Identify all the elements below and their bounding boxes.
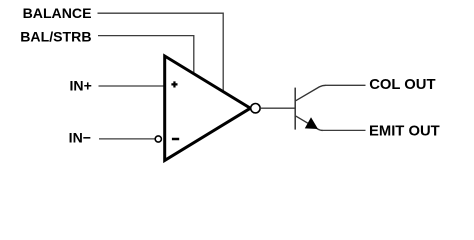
transistor Q1 base bar <box>294 88 296 130</box>
wire emitter to EMIT OUT <box>323 129 366 131</box>
op-amp - pin label <box>172 138 179 141</box>
svg-text:EMIT OUT: EMIT OUT <box>369 124 440 140</box>
op-amp U1 triangle <box>165 56 251 160</box>
wire collector to COL OUT <box>326 84 366 86</box>
svg-text:COL OUT: COL OUT <box>369 77 435 93</box>
wire BALANCE to op-amp top edge <box>98 13 224 91</box>
transistor Q1 emitter arrow <box>305 117 318 129</box>
wire BAL/STRB to op-amp top edge <box>98 36 194 74</box>
transistor Q1 emitter lead <box>296 116 323 130</box>
op-amp inverting input bubble <box>155 136 161 142</box>
svg-text:IN+: IN+ <box>69 77 91 93</box>
wire IN+ to op-amp <box>99 85 165 87</box>
wire IN- to inverting input bubble <box>99 138 155 140</box>
op-amp output inversion bubble <box>251 104 260 113</box>
wire op-amp output to transistor base <box>260 107 295 109</box>
op-amp + pin label <box>171 81 177 87</box>
svg-text:BALANCE: BALANCE <box>23 5 92 21</box>
svg-text:BAL/STRB: BAL/STRB <box>20 29 91 45</box>
svg-text:IN−: IN− <box>69 130 91 146</box>
transistor Q1 collector lead <box>296 85 326 100</box>
